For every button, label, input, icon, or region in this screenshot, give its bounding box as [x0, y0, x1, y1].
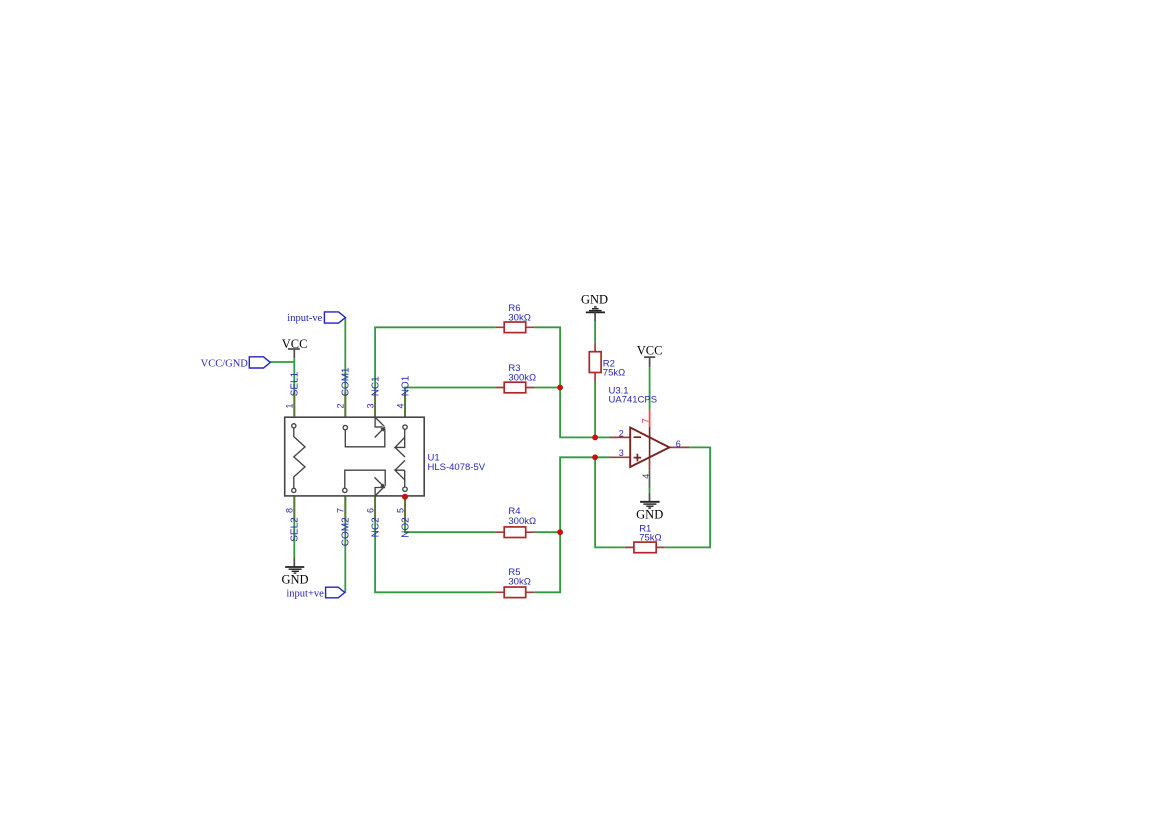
- resistor R1 body: [634, 542, 656, 553]
- op-amp U3.1 pin7 lead: [649, 409, 651, 427]
- svg-text:HLS-4078-5V: HLS-4078-5V: [428, 462, 486, 473]
- resistor R4 leads: [495, 531, 534, 533]
- resistor R3 body: [504, 382, 526, 393]
- svg-text:SEL1: SEL1: [290, 371, 301, 396]
- op-amp U3.1 pin4 lead: [649, 458, 651, 471]
- svg-text:input+ve: input+ve: [286, 589, 324, 600]
- svg-text:COM2: COM2: [341, 517, 352, 546]
- svg-text:NO1: NO1: [400, 375, 411, 396]
- relay U1 COM1 contact hook: [343, 425, 385, 446]
- svg-text:COM1: COM1: [341, 367, 352, 396]
- op-amp U3.1 pin4 stub: [649, 470, 651, 488]
- port input-ve: [287, 312, 345, 324]
- wire R6 out down bus to opamp pin2: [534, 327, 609, 437]
- op-amp U3.1 pin3 lead: [610, 456, 631, 458]
- wire COM2 to input+ve port: [344, 496, 346, 593]
- svg-text:VCC: VCC: [637, 343, 663, 357]
- resistor R6 leads: [495, 326, 534, 328]
- svg-text:VCC/GND: VCC/GND: [201, 358, 249, 369]
- power symbol VCC left: [282, 337, 308, 358]
- wire GND to R2 top: [594, 322, 596, 343]
- wire R3 out to bus: [534, 387, 560, 389]
- junction node R4/bus: [557, 529, 563, 535]
- svg-text:1: 1: [285, 403, 295, 408]
- svg-text:NO2: NO2: [400, 517, 411, 538]
- relay U1 COM2 contact hook: [343, 470, 386, 492]
- wire VCC to opamp pin7: [649, 367, 651, 409]
- relay U1 body box: [285, 417, 425, 496]
- port VCC/GND: [201, 357, 271, 370]
- wire opamp pin4 stub to GND: [649, 488, 651, 493]
- svg-text:4: 4: [395, 403, 405, 408]
- port input+ve: [286, 587, 344, 599]
- resistor R5 leads: [495, 591, 534, 593]
- wire bus to opamp pin3: [534, 457, 609, 592]
- svg-text:SEL2: SEL2: [290, 517, 301, 542]
- power symbol GND below op-amp: [636, 493, 663, 522]
- junction node R3/bus: [557, 385, 563, 391]
- relay U1 NO1/NO2 element: [395, 425, 407, 492]
- op-amp U3.1 plus sign: [634, 454, 642, 462]
- svg-text:7: 7: [640, 418, 650, 423]
- relay U1 COM1 arrowhead: [380, 426, 385, 431]
- junction node NO2: [402, 494, 408, 500]
- junction node pin3/R1: [592, 454, 598, 460]
- svg-text:UA741CPS: UA741CPS: [609, 395, 658, 406]
- resistor R6 body: [504, 322, 526, 333]
- power symbol GND below SEL2: [281, 558, 308, 587]
- relay U1 coil (pins 1-8): [292, 424, 305, 493]
- svg-text:GND: GND: [581, 293, 608, 307]
- svg-text:2: 2: [336, 403, 346, 408]
- wire R2 bottom to pin2 node: [594, 382, 596, 438]
- svg-text:30kΩ: 30kΩ: [508, 313, 530, 324]
- junction node pin2/R2: [592, 435, 598, 441]
- resistor R4 body: [504, 527, 526, 538]
- relay U1 COM2 arrowhead: [380, 483, 385, 488]
- svg-text:2: 2: [619, 428, 624, 438]
- resistor R1 leads: [625, 546, 665, 548]
- svg-text:NC1: NC1: [370, 376, 381, 396]
- wire SEL2 to GND: [293, 496, 295, 558]
- wire pin3 node down to R1 left: [595, 457, 625, 547]
- wire R4 out to bus: [534, 531, 560, 533]
- wire SEL1 vertical (VCC to U1 pin1): [293, 358, 295, 417]
- svg-text:300kΩ: 300kΩ: [508, 516, 536, 527]
- wire COM1 vertical (input-ve port to U1 pin2): [344, 318, 346, 417]
- resistor R2 body: [589, 352, 601, 373]
- svg-text:8: 8: [285, 508, 295, 513]
- svg-text:7: 7: [336, 508, 346, 513]
- op-amp U3.1 pin2 lead: [610, 436, 631, 438]
- svg-text:input-ve: input-ve: [287, 313, 322, 324]
- svg-text:4: 4: [641, 474, 651, 479]
- op-amp U3.1 pin6 lead: [669, 446, 689, 448]
- resistor R3 leads: [495, 387, 534, 389]
- svg-text:75kΩ: 75kΩ: [603, 367, 625, 378]
- wire opamp output to R1 right: [665, 447, 710, 547]
- resistor R2 leads: [594, 343, 596, 382]
- svg-text:6: 6: [676, 439, 681, 449]
- relay U1 lever 2: [375, 477, 385, 487]
- svg-text:3: 3: [366, 403, 376, 408]
- svg-text:75kΩ: 75kΩ: [639, 533, 661, 544]
- wire NO2 to R4: [405, 497, 495, 532]
- svg-text:5: 5: [395, 508, 405, 513]
- svg-text:30kΩ: 30kΩ: [508, 576, 530, 587]
- op-amp U3.1 triangle: [630, 428, 669, 468]
- power symbol GND above R2: [581, 293, 608, 322]
- relay U1 lever 1: [375, 429, 384, 438]
- op-amp U3.1 pin7 inner lead: [649, 427, 651, 458]
- svg-text:GND: GND: [636, 507, 663, 521]
- relay U1 pin lead stubs (wire over pin): [294, 392, 405, 521]
- resistor R5 body: [504, 587, 526, 598]
- wire NO1 to R3: [405, 388, 495, 418]
- relay U1 NC2 contact: [375, 487, 384, 496]
- svg-text:3: 3: [619, 448, 624, 458]
- wire NC1 to R6: [375, 327, 495, 417]
- wire VCC/GND port to SEL1 column: [270, 361, 294, 363]
- svg-text:GND: GND: [281, 573, 308, 587]
- power symbol VCC right: [637, 343, 663, 367]
- relay U1 NC1 contact: [375, 417, 384, 427]
- svg-text:300kΩ: 300kΩ: [508, 373, 536, 384]
- svg-text:6: 6: [366, 508, 376, 513]
- op-amp U3.1 minus sign: [634, 436, 641, 438]
- wire NC2 to R5: [375, 496, 495, 592]
- svg-text:NC2: NC2: [370, 517, 381, 537]
